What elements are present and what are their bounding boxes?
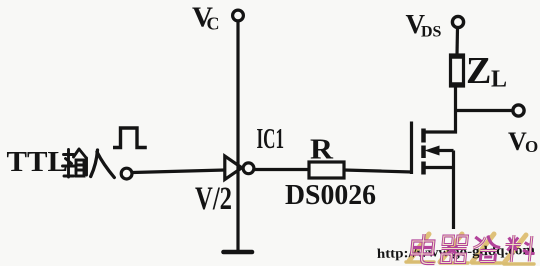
wire inverter output to resistor xyxy=(254,168,310,171)
wire VC vertical down to ground xyxy=(236,22,239,251)
label VDS xyxy=(406,9,442,41)
svg-text:V/2: V/2 xyxy=(195,181,232,217)
terminal VDS xyxy=(452,16,463,27)
resistor ZL caps xyxy=(450,54,465,59)
svg-text:C: C xyxy=(207,14,220,34)
terminal VO xyxy=(513,105,524,116)
label shu (输) xyxy=(63,149,87,177)
wire to VO terminal xyxy=(455,109,512,112)
resistor R box xyxy=(309,162,344,178)
watermark char zi (资) xyxy=(472,236,502,262)
watermark yellow slashes xyxy=(409,234,526,263)
wire resistor to gate xyxy=(344,170,412,172)
svg-text:L: L xyxy=(491,67,507,93)
label ZL xyxy=(466,50,507,93)
transistor channel segment middle xyxy=(421,146,426,159)
transistor channel segment bottom xyxy=(421,162,426,175)
svg-text:IC1: IC1 xyxy=(257,124,285,155)
wire drain xyxy=(425,86,456,132)
resistor ZL box xyxy=(451,55,464,86)
inverter IC1 triangle xyxy=(225,156,242,180)
wire VDS to ZL xyxy=(455,28,459,55)
terminal VC xyxy=(233,10,244,21)
pulse symbol xyxy=(113,128,147,148)
label VC xyxy=(192,2,220,34)
svg-text:R: R xyxy=(310,134,334,166)
inverter bubble xyxy=(243,163,254,174)
watermark char dian (电) xyxy=(411,234,438,264)
label VO xyxy=(508,127,538,156)
watermark yellow base xyxy=(406,262,534,264)
svg-text:DS: DS xyxy=(421,24,442,41)
wire source xyxy=(425,166,454,169)
label ru (入) xyxy=(91,150,115,178)
transistor channel segment top xyxy=(421,129,426,143)
transistor V gate bar xyxy=(410,122,413,175)
svg-text:DS0026: DS0026 xyxy=(285,179,376,211)
watermark char liao (料) xyxy=(504,235,537,262)
arrow body xyxy=(425,146,440,156)
watermark char qi (器) xyxy=(440,236,468,263)
ground xyxy=(224,250,253,255)
svg-text:Z: Z xyxy=(466,50,491,92)
terminal TTL input xyxy=(121,168,132,179)
svg-text:TTL: TTL xyxy=(7,146,69,178)
wire body with arrow xyxy=(438,149,454,152)
wire source/body down xyxy=(452,151,455,230)
svg-text:O: O xyxy=(525,137,538,156)
watermark pale texture overlay xyxy=(411,234,533,264)
wire input to inverter xyxy=(133,170,226,173)
